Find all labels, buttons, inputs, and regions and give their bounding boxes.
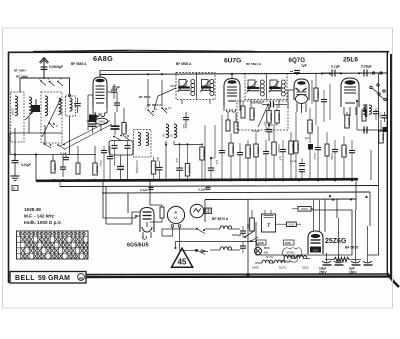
svg-text:10000: 10000 bbox=[310, 123, 314, 131]
label 0,0005uF bbox=[49, 65, 63, 69]
label 6G5/6U5 bbox=[127, 243, 149, 249]
capacitor C left-b bbox=[60, 155, 66, 177]
capacitor dark plates bbox=[111, 112, 120, 135]
label BF ps boxed 2 bbox=[284, 240, 295, 245]
switch S4 tone bbox=[370, 84, 386, 101]
wire mid drops bbox=[128, 181, 370, 277]
wire lower left horizontals bbox=[10, 133, 96, 155]
bus junction dots bbox=[53, 179, 353, 181]
resistor zigzag ps bbox=[325, 257, 361, 261]
tube 6U7G envelope bbox=[224, 79, 240, 107]
switch tone arm bbox=[244, 231, 258, 242]
capacitor 0,05uF out bbox=[359, 70, 382, 77]
svg-text:5000: 5000 bbox=[98, 120, 105, 124]
capacitor r302 pair bbox=[290, 158, 305, 180]
wire heater return bbox=[175, 242, 257, 253]
coil box osc dashed bbox=[134, 130, 152, 158]
capacitor 0,1uF right b bbox=[373, 108, 382, 120]
resistor det a 25000 bbox=[267, 105, 273, 124]
svg-text:0,000025μF: 0,000025μF bbox=[135, 160, 138, 174]
label BF 5656 osc bbox=[139, 95, 151, 99]
tube label 25Z6G bbox=[325, 238, 347, 245]
label 0,000025uF vertical bbox=[135, 160, 138, 174]
resistor r256 10000 bbox=[254, 133, 260, 180]
resistor r291 30000 bbox=[289, 132, 295, 180]
capacitor tuning gang dark bbox=[32, 99, 41, 112]
svg-text:BF 5656 A: BF 5656 A bbox=[176, 62, 192, 66]
tube label 6Q7G bbox=[289, 57, 306, 64]
label 0,0005uF IFT2 bbox=[251, 100, 264, 104]
label 0,01uF tone bbox=[232, 233, 242, 237]
svg-text:Imdk. 1000 Ω p.V.: Imdk. 1000 Ω p.V. bbox=[24, 220, 62, 225]
tube 25Z6G envelope bbox=[308, 231, 323, 254]
svg-text:10000: 10000 bbox=[11, 108, 15, 116]
svg-text:25000: 25000 bbox=[248, 148, 252, 156]
wire osc grid bbox=[107, 92, 117, 96]
svg-text:0,1μF: 0,1μF bbox=[99, 160, 103, 167]
svg-text:6A8G: 6A8G bbox=[252, 266, 259, 270]
resistor oval 5000 below 6A8G bbox=[95, 118, 108, 124]
label BF 5604 bbox=[14, 69, 26, 73]
title box BELL 59 GRAM bbox=[10, 272, 86, 284]
terminal block speaker bbox=[383, 127, 388, 132]
svg-text:50000: 50000 bbox=[124, 125, 128, 133]
capacitor to frame right bbox=[381, 112, 388, 122]
switch S0 contact 4 bbox=[48, 77, 55, 86]
capacitor r318 0,1uF bbox=[313, 126, 321, 180]
svg-text:1μF: 1μF bbox=[215, 160, 219, 165]
svg-text:15000: 15000 bbox=[95, 165, 99, 173]
tone coil row2 bbox=[210, 247, 240, 250]
wire top B+ bus bbox=[100, 72, 387, 77]
pickup P.U. circle bbox=[167, 206, 184, 223]
IFT1 coil b rings bbox=[210, 80, 214, 96]
IFT1 plates b bbox=[201, 88, 211, 91]
resistor r274 0,00025 bbox=[272, 126, 280, 180]
capacitor antenna 0,0005uF bbox=[41, 67, 48, 78]
coil L3b bbox=[42, 98, 61, 137]
resistor r296 15000 bbox=[294, 112, 300, 180]
wire left column drops bbox=[15, 116, 70, 161]
label BF 5675 bbox=[345, 246, 358, 250]
wire osc verticals bbox=[148, 79, 176, 110]
capacitor r240 bbox=[237, 143, 243, 180]
coil L4b bbox=[138, 133, 141, 146]
label 25uF bbox=[112, 86, 120, 90]
resistor det b 50000 bbox=[275, 105, 281, 124]
label 0,1uF under bus bbox=[140, 188, 154, 193]
svg-text:10000: 10000 bbox=[53, 163, 57, 171]
label 0,1uF det bbox=[252, 129, 260, 133]
svg-text:M.F. - 142 kHz: M.F. - 142 kHz bbox=[24, 214, 55, 219]
label 0,1uF under bus b bbox=[198, 187, 211, 191]
IFT2 divider bbox=[266, 74, 268, 100]
resistor R left-e 15000 bbox=[93, 146, 99, 175]
svg-text:BUB: BUB bbox=[258, 241, 264, 245]
tube label 25L6 bbox=[343, 57, 358, 64]
svg-text:25000: 25000 bbox=[188, 166, 192, 174]
tube 25L6 envelope bbox=[341, 78, 359, 107]
switch S1b contacts bbox=[44, 143, 65, 149]
svg-text:3150: 3150 bbox=[289, 224, 295, 227]
potentiometer 500000 arrow bbox=[258, 103, 269, 131]
svg-text:0,1μF: 0,1μF bbox=[198, 188, 206, 192]
svg-text:11: 11 bbox=[168, 106, 171, 110]
wire speaker line bbox=[356, 100, 383, 130]
wire trimmer drops bbox=[115, 154, 129, 181]
capacitor C 0,01uF left bbox=[12, 155, 19, 163]
wire top sub bbox=[100, 71, 160, 78]
svg-text:5000: 5000 bbox=[344, 148, 348, 154]
AVC network dashed box bbox=[237, 101, 288, 130]
antenna bbox=[40, 58, 49, 76]
tube 6U7G pins bbox=[224, 106, 240, 112]
capacitor C left-c 0,1uF bbox=[60, 151, 69, 160]
resistor mid 10000 bbox=[151, 157, 157, 181]
capacitor r222 bbox=[219, 115, 225, 180]
electrolytic C2 bbox=[334, 255, 344, 265]
capacitor det 0,1uF bbox=[266, 130, 273, 142]
schematic border frame bbox=[8, 50, 399, 287]
capacitor mid 3uF bbox=[156, 157, 163, 181]
IFT2 plates b bbox=[269, 88, 281, 91]
resistor 5000 ps bbox=[276, 222, 301, 227]
tube 6Q7G pins bbox=[297, 103, 306, 113]
svg-text:0,1μF: 0,1μF bbox=[331, 65, 340, 69]
tube 6A8G top cap wire bbox=[99, 71, 101, 78]
capacitor padder 0,000025uF bbox=[117, 155, 124, 181]
capacitor speaker series bbox=[364, 127, 367, 134]
tube 6G5 pins bbox=[143, 232, 152, 239]
label BF 5656 A mid bbox=[176, 62, 192, 66]
svg-text:6G5/6U5: 6G5/6U5 bbox=[127, 243, 149, 249]
capacitor r266 bbox=[263, 140, 269, 180]
tone coil row1 bbox=[214, 226, 240, 229]
svg-text:0,1μF: 0,1μF bbox=[252, 129, 260, 133]
svg-text:5 Y 3: 5 Y 3 bbox=[313, 250, 318, 253]
heater labels bbox=[252, 255, 309, 270]
switch S1 contacts bbox=[48, 122, 58, 128]
resistor mid 25000b bbox=[185, 145, 191, 181]
svg-text:300V: 300V bbox=[349, 271, 357, 275]
wire left drop pair bbox=[60, 181, 106, 225]
junction left bus bbox=[14, 153, 37, 181]
svg-text:25Z6G: 25Z6G bbox=[325, 238, 347, 245]
label BF 5670 G bbox=[147, 103, 162, 107]
svg-text:P.: P. bbox=[175, 211, 178, 215]
IFT2 coil a rings bbox=[260, 80, 264, 96]
svg-text:350: 350 bbox=[246, 224, 250, 229]
capacitor 1uF osc bbox=[182, 112, 189, 129]
IFT1 trimmer cap a bbox=[178, 80, 189, 93]
wire distribution line4 bbox=[205, 198, 356, 201]
svg-text:50000: 50000 bbox=[252, 110, 256, 118]
capacitor IFT2 coupling bbox=[262, 102, 287, 110]
IF transformer T2 box bbox=[245, 74, 287, 100]
svg-text:25U: 25U bbox=[287, 261, 292, 263]
resistor r327 bbox=[325, 132, 329, 180]
svg-text:1μF: 1μF bbox=[182, 124, 186, 129]
svg-text:25000: 25000 bbox=[269, 113, 273, 121]
svg-text:45: 45 bbox=[178, 257, 187, 266]
svg-text:0,1μF: 0,1μF bbox=[313, 153, 317, 160]
resistor right of 6G5 bbox=[150, 205, 164, 222]
callout cloud bbox=[282, 248, 302, 263]
wire IFT2 drops bbox=[251, 100, 279, 109]
IFT1 plates a bbox=[178, 88, 190, 91]
IFT1 divider bbox=[196, 73, 198, 99]
wire osc row bbox=[165, 141, 203, 181]
svg-text:50000: 50000 bbox=[277, 113, 281, 121]
resistor avc b 50000 bbox=[250, 108, 256, 120]
resistor 350 ohm ps bbox=[246, 210, 254, 231]
power box outline bbox=[256, 210, 352, 255]
switch S2 contacts bbox=[145, 107, 158, 116]
svg-text:BF 5604: BF 5604 bbox=[14, 69, 26, 73]
electrolytic C1 16uF bbox=[319, 253, 332, 275]
electrolytic C3 8uF bbox=[349, 253, 361, 275]
label BF 5600 bbox=[16, 75, 28, 79]
tube 25L6 pins bbox=[344, 107, 356, 116]
wire antenna to coils bbox=[20, 77, 70, 94]
label BF 5694 G bbox=[246, 62, 262, 66]
resistor r310 10000 bbox=[305, 108, 314, 180]
svg-text:1938-39: 1938-39 bbox=[24, 207, 41, 212]
capacitor mid 1uF a bbox=[175, 145, 183, 181]
IFT2 trimmer cap a bbox=[247, 80, 258, 93]
svg-text:50000: 50000 bbox=[231, 146, 235, 154]
text 1938-39 bbox=[24, 207, 41, 212]
svg-text:BUB: BUB bbox=[285, 241, 291, 245]
coil L4c bbox=[146, 133, 149, 146]
IFT2 trimmer cap b bbox=[269, 80, 280, 93]
resistor 25000 under 25L6 bbox=[345, 112, 351, 128]
svg-text:50000: 50000 bbox=[316, 91, 320, 99]
pickup terminals bbox=[171, 225, 181, 232]
svg-text:25000: 25000 bbox=[301, 208, 309, 211]
wire distribution line2 bbox=[60, 74, 379, 256]
coil L1 antenna dashed box bbox=[11, 92, 25, 142]
svg-text:25Z6: 25Z6 bbox=[302, 266, 309, 270]
svg-text:GRAM: GRAM bbox=[48, 275, 70, 282]
svg-text:6Q7G: 6Q7G bbox=[279, 266, 286, 270]
wire IFT1 drops bbox=[170, 86, 210, 104]
capacitor r352 bbox=[349, 140, 355, 180]
resistor R left-d bbox=[76, 146, 80, 174]
wire 6G5 grid bbox=[103, 212, 140, 224]
svg-text:1μF: 1μF bbox=[301, 63, 307, 67]
svg-text:BF 5694 G: BF 5694 G bbox=[246, 62, 262, 66]
coil L5 osc bbox=[162, 124, 169, 138]
capacitor under 6A8G a bbox=[114, 96, 120, 112]
resistor 500 ohm bbox=[379, 120, 385, 143]
resistor r231 50000 bbox=[229, 133, 235, 180]
coil L2 with trimmer bbox=[25, 97, 33, 120]
coil L4 bbox=[69, 95, 73, 112]
switch S0 contact 5 bbox=[57, 77, 63, 86]
resistor right of 6Q7G a bbox=[314, 74, 320, 125]
text Imdk 1000 bbox=[24, 220, 62, 225]
tube 6Q7G envelope bbox=[294, 79, 309, 104]
svg-text:30000: 30000 bbox=[291, 144, 295, 152]
svg-text:BF 5656 A: BF 5656 A bbox=[71, 62, 87, 66]
svg-text:BF 5656: BF 5656 bbox=[139, 95, 151, 99]
svg-text:0,1μF: 0,1μF bbox=[290, 160, 297, 163]
svg-text:15000: 15000 bbox=[296, 143, 300, 151]
svg-text:6U7G: 6U7G bbox=[266, 255, 273, 259]
coil L1 bbox=[11, 96, 18, 116]
capacitor gang2 dark bbox=[89, 115, 97, 134]
svg-text:25L6: 25L6 bbox=[343, 57, 358, 64]
output transformer T3 bbox=[363, 104, 371, 117]
svg-text:500Ω: 500Ω bbox=[381, 134, 385, 140]
switch box 7 bbox=[262, 210, 276, 232]
wire 5000 oval left bbox=[87, 120, 95, 122]
capacitor r335 0,05uF bbox=[330, 140, 338, 180]
svg-text:7: 7 bbox=[267, 223, 270, 229]
svg-text:6U7G: 6U7G bbox=[224, 58, 241, 65]
label BF ps boxed bbox=[257, 240, 267, 245]
valve socket table bbox=[17, 231, 89, 259]
resistor under 6U7G a bbox=[226, 113, 230, 131]
wire distribution line3 bbox=[102, 192, 370, 193]
label 0,05uF right of 25L6 bbox=[361, 65, 372, 69]
capacitor 0,1uF mid a bbox=[99, 146, 107, 180]
svg-text:1μF: 1μF bbox=[279, 156, 283, 161]
wire tone to PU bbox=[162, 229, 190, 250]
svg-text:3μF: 3μF bbox=[156, 157, 159, 162]
electrolytic C4 bbox=[363, 248, 373, 265]
capacitor ant section bbox=[74, 98, 81, 113]
wire ps risers bbox=[314, 198, 368, 255]
terminal box left bbox=[12, 186, 18, 191]
triangle 45 mark bbox=[172, 248, 193, 267]
wire 6A8G cathode drops bbox=[88, 95, 101, 131]
svg-text:0,1μF: 0,1μF bbox=[60, 151, 67, 155]
svg-text:0,00025: 0,00025 bbox=[277, 144, 280, 153]
capacitor 0,1uF right a bbox=[362, 108, 366, 121]
wire 6Q7G grid bbox=[288, 90, 294, 108]
tube 6A8G envelope bbox=[93, 77, 107, 108]
resistor r248 25000 bbox=[246, 140, 252, 180]
tube 6G5 envelope bbox=[140, 208, 154, 233]
tone capacitor b bbox=[240, 241, 246, 253]
svg-text:250V: 250V bbox=[319, 271, 327, 275]
capacitor 0,1uF mid b bbox=[107, 146, 113, 180]
capacitor 25uF bbox=[111, 84, 117, 99]
label BF 5656 A left bbox=[71, 62, 87, 66]
svg-text:1μF: 1μF bbox=[175, 158, 179, 163]
label 0,1uF left of 25L6 bbox=[331, 65, 340, 69]
tube label 6A8G bbox=[93, 54, 113, 63]
tube 6U7G top cap wire bbox=[231, 74, 233, 79]
svg-text:BELL: BELL bbox=[15, 275, 35, 282]
ground symbol left bbox=[11, 163, 20, 181]
lamp dial bbox=[254, 243, 261, 255]
capacitor r283 1uF bbox=[279, 140, 287, 180]
svg-text:0,05μF: 0,05μF bbox=[330, 153, 333, 161]
ground bus main bbox=[36, 179, 358, 181]
svg-text:BF5640: BF5640 bbox=[287, 253, 296, 255]
resistor avc a bbox=[241, 101, 245, 118]
label 1uF top bbox=[301, 63, 307, 67]
coil L4 box bbox=[66, 96, 76, 116]
resistor 25000 ps bbox=[292, 207, 314, 212]
resistor under 6U7G b bbox=[234, 113, 238, 133]
svg-text:U.: U. bbox=[174, 216, 178, 220]
capacitor 1uF r211 bbox=[205, 125, 219, 181]
motor box hatched bbox=[205, 208, 212, 214]
text M.F. 142 kHz bbox=[24, 214, 55, 219]
gang link diagonal bbox=[60, 121, 112, 150]
svg-text:0,1μF: 0,1μF bbox=[379, 112, 382, 119]
capacitor right of 6Q7G bbox=[321, 90, 327, 122]
capacitor 0,1uF coupling bbox=[322, 70, 341, 77]
capacitor 1uF 6Q7G bbox=[290, 71, 300, 73]
resistor mid l 50000 bbox=[200, 143, 206, 180]
svg-text:5μF: 5μF bbox=[305, 137, 310, 140]
svg-text:0,01μF: 0,01μF bbox=[21, 163, 31, 167]
svg-text:25000: 25000 bbox=[347, 118, 351, 126]
svg-text:25μF: 25μF bbox=[112, 86, 120, 90]
IFT2 coil b rings bbox=[281, 80, 285, 96]
coil L6 osc bbox=[170, 124, 177, 138]
motor circle bbox=[190, 204, 204, 218]
heater chain coils bbox=[255, 256, 310, 263]
wire det join bbox=[268, 123, 277, 129]
svg-text:50000: 50000 bbox=[202, 150, 206, 158]
switch S3 contacts bbox=[161, 106, 171, 113]
svg-text:10000: 10000 bbox=[256, 147, 260, 155]
tube label 6U7G bbox=[224, 58, 241, 65]
resistor r344 5000 bbox=[342, 136, 348, 180]
label 0,01uF left bbox=[21, 163, 31, 167]
tube 6A8G pins bbox=[93, 108, 107, 117]
wire 6Q7G right verticals bbox=[312, 80, 371, 198]
svg-text:BF 5675: BF 5675 bbox=[345, 246, 358, 250]
IFT2 plates a bbox=[247, 88, 260, 91]
tone capacitor a bbox=[240, 226, 246, 238]
svg-text:0,05μF: 0,05μF bbox=[361, 65, 372, 69]
resistor R left-a 10000 bbox=[51, 155, 57, 174]
resistor R osc a bbox=[122, 108, 128, 134]
switch S2b arms bbox=[113, 135, 129, 141]
svg-text:0,1μF: 0,1μF bbox=[140, 188, 148, 192]
svg-text:0,0005μF: 0,0005μF bbox=[49, 65, 63, 69]
svg-text:BF 5670 A: BF 5670 A bbox=[212, 217, 229, 221]
wire switch left contacts bbox=[190, 228, 214, 255]
trimmer box osc bbox=[109, 141, 133, 156]
switch S0 contact 1 bbox=[39, 77, 46, 86]
coil L3 bbox=[45, 96, 48, 116]
IFT1 coil a rings bbox=[191, 80, 195, 96]
IFT1 trimmer cap b bbox=[200, 80, 210, 93]
svg-text:59: 59 bbox=[38, 275, 46, 282]
svg-text:06: 06 bbox=[79, 276, 83, 280]
coil L3 dashed box bbox=[41, 92, 62, 143]
label BF 5670 A bbox=[212, 217, 229, 221]
svg-text:6A8G: 6A8G bbox=[93, 54, 113, 63]
label 6X 5A bbox=[264, 246, 270, 255]
svg-text:65 X: 65 X bbox=[264, 246, 270, 250]
IF transformer T1 box bbox=[176, 73, 215, 100]
